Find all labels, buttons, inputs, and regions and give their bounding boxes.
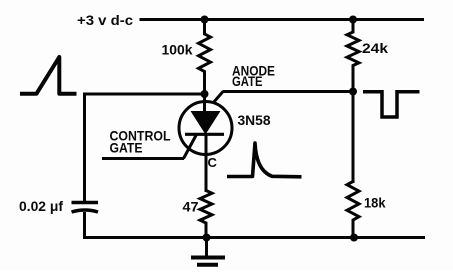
wire: left vertical to capacitor bbox=[83, 93, 86, 203]
SCS triangle (anode) bbox=[191, 111, 221, 135]
node: anode junction dot bbox=[201, 90, 209, 98]
input sawtooth waveform bbox=[20, 57, 77, 94]
wire: anode node to capacitor branch (horizontal) bbox=[85, 93, 205, 96]
junction: rail / 24k bbox=[349, 16, 357, 24]
junction: bottom rail / 47 bbox=[203, 234, 211, 242]
svg-text:18k: 18k bbox=[364, 195, 386, 211]
svg-text:GATE: GATE bbox=[232, 73, 263, 89]
label: CONTROL GATE bbox=[110, 128, 171, 156]
SCS 3N58 circle bbox=[179, 102, 232, 155]
svg-text:0.02 μf: 0.02 μf bbox=[19, 198, 63, 214]
junction: anode gate / divider bbox=[349, 88, 357, 96]
control gate lead (diagonal) bbox=[184, 134, 198, 159]
svg-text:47: 47 bbox=[183, 199, 199, 215]
cathode spike waveform bbox=[227, 143, 302, 177]
anode gate lead (diagonal) bbox=[213, 92, 223, 104]
resistor 47 bbox=[200, 191, 212, 239]
junction: rail / 100k bbox=[201, 16, 209, 24]
SCS cathode bar bbox=[185, 133, 224, 136]
output negative pulse waveform bbox=[363, 92, 420, 117]
capacitor 0.02uf bbox=[72, 203, 99, 213]
junction: bottom rail / 18k bbox=[350, 234, 358, 242]
wire: anode lead into device bbox=[203, 94, 206, 113]
svg-text:24k: 24k bbox=[362, 40, 388, 56]
ground bbox=[191, 238, 225, 265]
svg-text:GATE: GATE bbox=[110, 139, 143, 155]
wire: +3V supply rail bbox=[140, 18, 425, 21]
wire: capacitor to bottom rail bbox=[83, 212, 86, 239]
svg-text:3N58: 3N58 bbox=[238, 112, 271, 128]
wire: divider node to 18k bbox=[352, 92, 355, 184]
label: ANODE GATE bbox=[232, 62, 275, 89]
wire: anode gate to 24k/18k divider bbox=[223, 90, 354, 93]
resistor 100k bbox=[199, 18, 211, 95]
resistor 18k bbox=[347, 182, 359, 239]
svg-text:+3 v d-c: +3 v d-c bbox=[77, 12, 133, 28]
wire: cathode lead to 47 bbox=[205, 134, 208, 192]
resistor 24k bbox=[347, 18, 359, 93]
wire: control gate leader line bbox=[102, 157, 184, 160]
svg-text:C: C bbox=[208, 155, 218, 170]
svg-text:100k: 100k bbox=[162, 42, 193, 58]
wire: bottom ground rail bbox=[85, 236, 426, 239]
